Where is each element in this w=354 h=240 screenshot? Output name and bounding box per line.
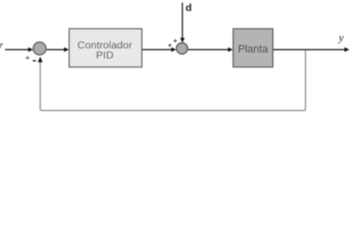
- svg-text:PID: PID: [96, 50, 114, 62]
- svg-text:d: d: [186, 3, 192, 14]
- svg-text:+: +: [25, 53, 30, 62]
- svg-text:Planta: Planta: [238, 44, 268, 56]
- svg-text:r: r: [0, 40, 4, 50]
- svg-text:y: y: [338, 32, 344, 44]
- svg-text:+: +: [173, 36, 178, 45]
- svg-text:+: +: [168, 40, 173, 49]
